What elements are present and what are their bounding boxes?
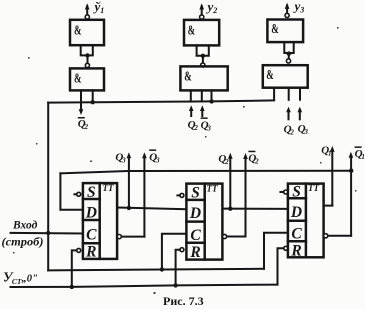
svg-text:C: C: [291, 226, 302, 243]
svg-text:D: D: [290, 204, 302, 221]
wire Q3bar riser with arrow: [142, 152, 147, 236]
svg-text:УСТ„0": УСТ„0": [3, 270, 38, 287]
labels S D C R of FF2: [189, 185, 201, 262]
FF3 Qbar output bubble and wire: [117, 235, 144, 239]
FF1 C input wire from clock bus: [264, 233, 288, 269]
node strobe line / G2 input: [91, 100, 95, 104]
label Q3bar above FF3: [149, 149, 160, 164]
wire G4 input stubs: [191, 90, 212, 101]
FF2 R input bubble and wire to reset bus: [176, 248, 184, 286]
svg-text:Вход: Вход: [12, 220, 38, 232]
AND gate G5 (column 3 top): [267, 20, 303, 43]
wire U-connector between G3 and G4: [197, 45, 209, 62]
output arrow y3: [285, 3, 290, 14]
svg-text:ў1: ў1: [93, 0, 105, 15]
wire G6 input stubs: [289, 88, 300, 100]
wire Q1bar riser with arrow: [349, 152, 354, 236]
FF1 S input bubble and stub: [281, 190, 288, 194]
FF2 Qbar output bubble and wire: [223, 234, 246, 238]
wire input arrow Q3 under G6: [298, 107, 303, 120]
wire Q1 output riser with arrow: [324, 146, 335, 206]
svg-text:R: R: [85, 244, 96, 261]
node FF3 R on reset bus: [70, 285, 74, 289]
wire input strobe line to FF3.C: [11, 232, 83, 235]
AND gate G2 (column 1 bottom): [70, 68, 104, 90]
FF3 R input bubble and wire to reset bus: [72, 248, 81, 287]
svg-text:R: R: [189, 244, 200, 261]
label Q1bar above FF1: [355, 146, 365, 161]
label Q2bar above FF2: [248, 151, 259, 166]
output arrow y2: [199, 3, 204, 15]
label Q2bar under column 1: [78, 117, 89, 131]
node junction between G3 and G4: [201, 54, 205, 58]
node strobe line / G4 input: [209, 99, 213, 103]
wire U-connector between G1 and G2: [81, 45, 93, 63]
svg-text:Q1: Q1: [321, 144, 331, 157]
flip-flop FF2 (middle) body: [186, 184, 222, 260]
svg-text:D: D: [85, 205, 97, 222]
FF1 Qbar output bubble and wire: [324, 234, 352, 238]
node strobe riser / input line: [46, 231, 50, 235]
svg-text:Q2: Q2: [78, 118, 89, 131]
node FF2 C on clock bus: [160, 267, 164, 271]
svg-text:D: D: [189, 205, 201, 222]
output bubble of gate G4: [201, 63, 205, 67]
AND gate G4 (column 2 bottom): [180, 66, 227, 90]
svg-text:TT: TT: [103, 183, 114, 193]
wire clock bus (line A): [48, 269, 264, 271]
svg-text:Q2: Q2: [188, 119, 199, 132]
output bubble of gate G3 top: [200, 15, 204, 19]
node junction between G1 and G2: [85, 53, 89, 57]
flip-flop FF3 (left) body: [83, 183, 117, 259]
svg-text:Q2: Q2: [284, 123, 295, 136]
wire G2 input stub left with down arrow to Q2bar: [79, 90, 84, 115]
svg-text:Q3: Q3: [115, 151, 126, 164]
wire G6 left input from strobe line: [273, 88, 275, 100]
labels S D C R of FF3: [85, 184, 97, 261]
output bubble of gate G6: [286, 59, 290, 63]
wire input arrow Q2 under G4: [189, 105, 194, 116]
svg-text:Q2: Q2: [218, 153, 229, 166]
flip-flop FF1 (right) body: [288, 184, 324, 258]
svg-text:&: &: [266, 68, 274, 83]
svg-text:C: C: [190, 227, 201, 244]
FF2 S input bubble and stub: [177, 193, 184, 197]
node Q3 tap on FF3.Q wire: [127, 206, 131, 210]
wire FF2.Q to FF1.D: [222, 208, 288, 210]
wire input arrow Q3bar under G4: [200, 105, 205, 116]
output arrow y1: [85, 3, 90, 15]
svg-text:S: S: [87, 184, 96, 201]
output bubble of gate G2: [85, 63, 89, 67]
FF3 S input bubble and stub: [74, 192, 80, 196]
node FF2 R on reset bus: [173, 283, 177, 287]
node Q1bar riser / feedback line: [349, 169, 353, 173]
wire Q2bar riser with arrow: [243, 153, 248, 237]
svg-text:&: &: [74, 71, 82, 86]
FF1 R input bubble and wire to reset bus: [278, 246, 288, 284]
svg-text:Q3: Q3: [149, 151, 160, 164]
svg-text:S: S: [292, 184, 301, 201]
svg-text:Q3: Q3: [298, 123, 309, 136]
svg-text:у2: у2: [206, 0, 218, 15]
svg-text:Q1: Q1: [355, 148, 365, 161]
svg-text:C: C: [86, 227, 97, 244]
wire U-connector between G5 and G6: [284, 42, 293, 59]
wire input arrow Q2 under G6: [286, 107, 291, 120]
svg-text:&: &: [74, 23, 82, 38]
svg-text:Рис. 7.3: Рис. 7.3: [163, 294, 204, 308]
node junction between G5 and G6: [287, 51, 291, 55]
FF2 C input wire from clock bus: [162, 234, 187, 270]
svg-text:S: S: [191, 185, 200, 202]
wire feedback drop to D of FF3: [60, 173, 83, 209]
wire Q2 tap with arrow: [228, 153, 233, 209]
wire reset bus Ust0 (line B): [11, 285, 278, 287]
output bubble of gate G5 top: [285, 13, 289, 17]
svg-text:Q3: Q3: [201, 119, 212, 132]
svg-text:R: R: [290, 243, 301, 260]
node Q2 tap on FF2.Q wire: [228, 207, 232, 211]
svg-text:(строб): (строб): [2, 235, 44, 249]
svg-text:TT: TT: [308, 183, 319, 193]
labels S D C R of FF1: [290, 184, 302, 260]
svg-text:у3: у3: [293, 0, 305, 15]
AND gate G6 (column 3 bottom): [263, 65, 308, 88]
wire G2 input stub right: [92, 90, 94, 102]
wire strobe distribution bus (top long line): [48, 100, 274, 102]
svg-text:&: &: [184, 69, 192, 84]
svg-text:Q2: Q2: [248, 153, 259, 166]
output bubble of gate G1 top: [85, 15, 89, 19]
svg-text:&: &: [271, 22, 279, 37]
wire FF3.Q to FF2.D: [117, 208, 186, 210]
AND gate G1 (column 1 top): [70, 20, 104, 45]
wire Q1bar feedback line (middle long line): [60, 171, 351, 174]
svg-text:TT: TT: [207, 184, 218, 194]
wire strobe left riser: [47, 103, 49, 271]
AND gate G3 (column 2 top): [184, 20, 219, 46]
wire Q3 tap with arrow: [127, 152, 132, 208]
label Q3bar under column 2: [201, 117, 212, 132]
svg-text:&: &: [188, 23, 196, 38]
